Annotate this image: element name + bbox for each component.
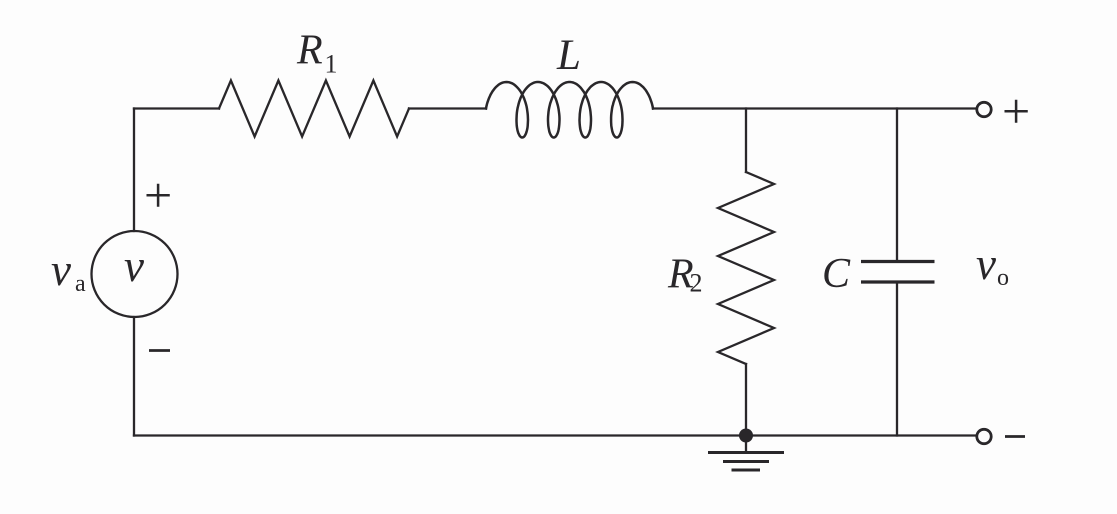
wire left vertical top (source + lead) [133,109,135,232]
svg-text:v: v [976,239,996,289]
voltage source circle v [92,231,178,317]
svg-text:+: + [1002,83,1030,139]
polarity - at source [149,349,170,352]
svg-text:C: C [822,251,851,297]
ground stub [745,436,747,453]
wire left vertical bottom (source - lead) [133,317,135,436]
output terminal + (open circle) [977,102,991,116]
wire bottom rail [134,434,976,436]
wire top left segment [134,107,219,109]
resistor R2 [718,172,774,364]
output terminal - (open circle) [977,429,991,443]
svg-text:1: 1 [325,50,338,79]
svg-text:+: + [144,167,172,223]
svg-text:v: v [124,241,144,291]
svg-text:v: v [51,245,71,295]
wire C top lead [896,109,898,262]
resistor R1 [219,81,409,137]
polarity - at output [1005,435,1025,438]
wire C bottom lead [896,283,898,436]
wire R2 top lead [745,109,747,173]
wire R2 bottom lead [745,364,747,436]
svg-text:L: L [556,32,581,79]
junction node (R2 / ground / bottom rail) [739,429,753,443]
wire between R1 and L [409,107,486,109]
svg-text:2: 2 [690,269,703,298]
svg-text:a: a [75,271,86,297]
capacitor C plates [861,262,935,283]
wire from L to output + terminal [653,107,976,109]
svg-text:R: R [296,28,323,74]
ground bars [708,453,784,471]
inductor L [486,82,653,138]
svg-text:o: o [997,265,1009,291]
